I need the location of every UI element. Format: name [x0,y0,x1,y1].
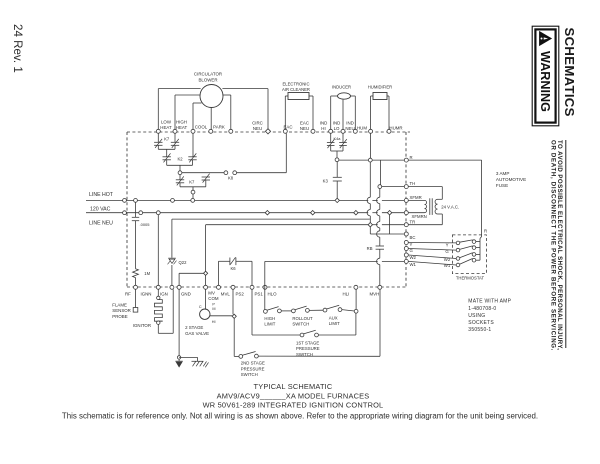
svg-text:AUTOMOTIVE: AUTOMOTIVE [496,177,526,182]
svg-text:IND: IND [346,121,354,126]
svg-text:Y: Y [410,242,413,247]
svg-text:AIR CLEANER: AIR CLEANER [282,87,310,92]
svg-text:.0005: .0005 [140,222,151,227]
svg-text:R: R [484,229,487,234]
svg-text:IND: IND [333,121,341,126]
svg-text:CIRC: CIRC [252,121,263,126]
svg-text:LINE HOT: LINE HOT [89,192,114,198]
svg-text:K2: K2 [177,156,183,161]
svg-text:RF: RF [125,292,131,297]
svg-text:2 STAGE: 2 STAGE [185,325,203,330]
svg-text:HUM: HUM [357,126,367,131]
svg-text:MVL: MVL [221,292,231,297]
svg-text:LINE NEU: LINE NEU [89,221,113,227]
svg-text:K4a: K4a [334,136,342,141]
svg-text:24 V.A.C.: 24 V.A.C. [441,204,459,209]
svg-text:FLAME: FLAME [112,303,127,308]
svg-text:COOL: COOL [195,125,208,130]
svg-text:RB: RB [367,246,373,251]
svg-text:EAC: EAC [283,125,292,130]
svg-text:W2: W2 [444,257,451,262]
svg-text:K3: K3 [323,178,329,183]
svg-text:XFMR: XFMR [410,195,422,200]
svg-text:This schematic is for referenc: This schematic is for reference only. No… [62,411,538,420]
svg-text:EAC: EAC [300,121,309,126]
svg-text:P: P [212,303,215,307]
svg-text:LO: LO [334,126,340,131]
svg-text:Q22: Q22 [179,260,188,265]
svg-text:K7: K7 [164,136,170,141]
svg-text:IGNITOR: IGNITOR [133,323,151,328]
svg-text:1ST STAGE: 1ST STAGE [296,340,319,345]
svg-text:PS2: PS2 [236,292,245,297]
svg-text:SWITCH: SWITCH [292,322,309,327]
svg-text:K7: K7 [189,180,195,185]
svg-text:NEU: NEU [253,126,262,131]
svg-text:PARK: PARK [213,125,225,130]
svg-text:PRESSURE: PRESSURE [241,366,265,371]
svg-text:1-480708-0: 1-480708-0 [468,306,496,312]
svg-text:FUSE: FUSE [496,183,508,188]
svg-text:24 Rev. 1: 24 Rev. 1 [11,24,24,73]
svg-text:BLOWER: BLOWER [198,77,217,82]
svg-text:TYPICAL SCHEMATIC: TYPICAL SCHEMATIC [254,382,333,391]
svg-text:350550-1: 350550-1 [468,327,491,333]
svg-text:AMV9/ACV9______XA MODEL FURNAC: AMV9/ACV9______XA MODEL FURNACES [217,391,370,400]
svg-text:1M: 1M [144,271,150,276]
svg-text:GAS VALVE: GAS VALVE [185,331,209,336]
svg-text:GND: GND [181,292,191,297]
svg-text:HEAT: HEAT [176,125,188,130]
svg-text:PRESSURE: PRESSURE [296,346,320,351]
svg-text:IND: IND [320,121,328,126]
svg-text:120 VAC: 120 VAC [90,207,111,213]
svg-text:LIMIT: LIMIT [264,322,275,327]
svg-text:IGN: IGN [160,292,168,297]
svg-text:IGNN: IGNN [141,292,152,297]
svg-text:COM: COM [208,296,219,301]
svg-text:USING: USING [468,313,485,319]
svg-text:MV: MV [208,291,215,296]
svg-text:MATE WITH AMP: MATE WITH AMP [468,299,511,305]
svg-text:WR 50V61-289 INTEGRATED IGNITI: WR 50V61-289 INTEGRATED IGNITION CONTROL [203,401,384,410]
svg-text:AUX: AUX [329,315,338,320]
svg-text:HIGH: HIGH [176,120,187,125]
svg-text:W2: W2 [410,255,417,260]
svg-text:3 AMP: 3 AMP [496,171,510,176]
svg-text:HLI: HLI [343,292,350,297]
svg-text:HLO: HLO [268,292,278,297]
svg-text:HUMR: HUMR [389,126,402,131]
svg-text:TR: TR [410,219,416,224]
svg-text:TH: TH [410,181,416,186]
svg-text:NEU: NEU [300,126,309,131]
svg-text:XFMRN: XFMRN [412,214,427,219]
svg-text:M: M [212,307,215,311]
svg-text:PROBE: PROBE [112,314,127,319]
svg-text:THERMOSTAT: THERMOSTAT [456,275,485,280]
svg-text:CIRCULATOR: CIRCULATOR [194,72,222,77]
svg-text:2ND STAGE: 2ND STAGE [241,361,265,366]
svg-text:R: R [410,155,413,160]
svg-text:MVH: MVH [370,292,380,297]
svg-text:NEU: NEU [345,126,354,131]
svg-text:ROLLOUT: ROLLOUT [292,316,313,321]
svg-text:SWITCH: SWITCH [296,352,313,357]
svg-text:HUMIDIFIER: HUMIDIFIER [368,85,392,90]
svg-text:K8: K8 [228,176,234,181]
svg-text:BC: BC [410,235,416,240]
svg-text:SCHEMATICS: SCHEMATICS [562,28,577,117]
svg-text:W1: W1 [410,262,417,267]
svg-text:HI: HI [212,320,216,324]
svg-text:HEAT: HEAT [160,125,172,130]
svg-text:HI: HI [321,126,325,131]
svg-text:C: C [199,305,202,309]
svg-text:INDUCER: INDUCER [332,85,351,90]
svg-text:SENSOR: SENSOR [112,308,131,313]
svg-text:HIGH: HIGH [264,316,275,321]
svg-text:PS1: PS1 [255,292,264,297]
svg-text:SWITCH: SWITCH [241,372,258,377]
svg-text:ELECTRONIC: ELECTRONIC [283,82,310,87]
svg-text:LOW: LOW [161,120,172,125]
svg-text:K6: K6 [230,266,236,271]
svg-text:SOCKETS: SOCKETS [468,320,494,326]
svg-text:WARNING: WARNING [538,51,552,112]
svg-text:OR DEATH, DISCONNECT THE POWER: OR DEATH, DISCONNECT THE POWER BEFORE SE… [550,140,557,351]
svg-text:LIMIT: LIMIT [329,321,340,326]
svg-text:Y: Y [446,243,449,248]
svg-text:W1: W1 [444,263,451,268]
